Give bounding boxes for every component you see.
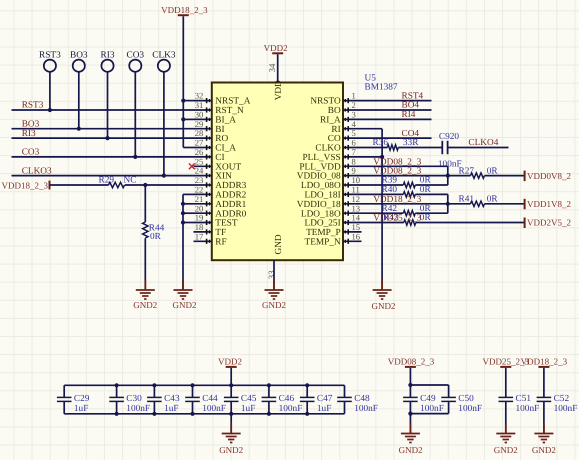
svg-text:RI4: RI4 [402, 110, 416, 120]
junction bus pin 20 [181, 211, 185, 215]
power port VDD1V8_2 [525, 199, 571, 210]
svg-text:VDD1V8_2: VDD1V8_2 [527, 199, 571, 209]
wire VDD18 port to R29 [50, 184, 109, 186]
junction C47 bottom rail [305, 412, 309, 416]
junction C30 top rail [115, 383, 119, 387]
svg-text:GND2: GND2 [532, 445, 556, 455]
wire R39 to bracket [415, 184, 448, 186]
capacitor C43 [147, 385, 180, 414]
power port VDD18_2_3 (C52) [521, 357, 568, 367]
wire right gnd vertical [381, 129, 383, 290]
svg-text:C30: C30 [126, 394, 142, 404]
svg-text:RF: RF [215, 237, 226, 247]
wire R29 to pin 23 ADDR3 [125, 184, 194, 186]
wire C52 to ground [543, 401, 545, 433]
capacitor C44 [185, 385, 226, 414]
ground GND2 (C52) [532, 423, 556, 455]
capacitor C45 [224, 385, 257, 414]
svg-text:VDD25_2_3: VDD25_2_3 [373, 214, 421, 224]
junction VDD18 node [446, 202, 450, 206]
power port VDD18_2_3 (top left) [161, 5, 208, 15]
svg-text:16: 16 [352, 231, 361, 241]
pin 9 VDDIO_08 (right) [297, 166, 362, 182]
junction C46 top rail [267, 383, 271, 387]
wire ADDR2 bus corner [183, 193, 194, 195]
svg-text:RST3: RST3 [22, 101, 44, 111]
junction C44 bottom rail [190, 412, 194, 416]
svg-text:34: 34 [267, 63, 277, 72]
svg-text:VDD08_2_3: VDD08_2_3 [373, 167, 421, 177]
pin 23 ADDR3 (left) [194, 175, 247, 191]
junction bus pin 21 [181, 202, 185, 206]
pin 6 CLKO (right) [315, 138, 361, 154]
capacitor C51 [499, 394, 540, 414]
pin 8 PLL_VDD (right) [299, 156, 361, 172]
wire LDO_18O pin13 to R42 [362, 212, 404, 214]
svg-text:GND2: GND2 [372, 301, 396, 311]
wire bottom rail to ground (bank 1) [230, 414, 232, 434]
svg-text:BM1387: BM1387 [365, 83, 398, 93]
wire net RST4 [362, 100, 432, 102]
svg-text:R29: R29 [99, 176, 115, 186]
svg-text:17: 17 [195, 231, 204, 241]
svg-text:GND: GND [274, 234, 284, 254]
resistor R43 [383, 213, 431, 225]
junction PLL_VSS [380, 155, 384, 159]
ground GND2 under R44 [133, 280, 157, 311]
wire RST3 drop [49, 72, 51, 110]
svg-text:TEMP_N: TEMP_N [305, 237, 341, 247]
junction RI3 [105, 136, 109, 140]
pin 3 RI_A (right) [320, 110, 361, 126]
svg-text:0R: 0R [150, 232, 162, 242]
wire net RI4 [362, 118, 432, 120]
pin 13 LDO_18O (right) [301, 203, 362, 219]
capacitor C47 [300, 385, 333, 414]
pin 31 RST_N (left) [194, 100, 244, 116]
junction VDD18/BI_A [181, 117, 185, 121]
junction CO3 [133, 155, 137, 159]
svg-text:GND2: GND2 [262, 300, 286, 310]
capacitor C50 [441, 385, 482, 414]
svg-text:1uF: 1uF [74, 404, 88, 414]
junction bus pin 19 [181, 220, 185, 224]
wire ADDR bus vertical to ground [182, 194, 184, 290]
wire LDO_18I pin11 to R40 [362, 193, 404, 195]
pin 1 NRSTO (right) [310, 91, 361, 107]
svg-text:VDD2V5_2: VDD2V5_2 [527, 218, 571, 228]
wire RI pin4 to gnd vertical [362, 128, 383, 130]
junction ADDR3/R44 [143, 183, 147, 187]
svg-text:GND2: GND2 [173, 300, 197, 310]
pin 4 RI (right) [331, 119, 361, 135]
svg-text:CO3: CO3 [22, 148, 40, 158]
svg-text:1uF: 1uF [317, 404, 331, 414]
junction C43 bottom rail [152, 412, 156, 416]
wire net CO3 [12, 156, 194, 158]
testpoint BO3 [70, 50, 88, 71]
svg-text:GND2: GND2 [219, 445, 243, 455]
wire bracket pins 8-10 [447, 166, 449, 185]
testpoint RI3 [101, 50, 115, 71]
svg-text:100nF: 100nF [554, 404, 578, 414]
svg-text:C920: C920 [439, 132, 459, 142]
wire R41 to VDD1V8_2 port [485, 203, 525, 205]
wire R44 to ground [144, 238, 146, 290]
wire bracket pins 11-13 [447, 194, 449, 213]
svg-text:100nF: 100nF [516, 404, 540, 414]
pin 17 RF (left) [194, 231, 227, 247]
svg-text:C47: C47 [317, 394, 333, 404]
pin 7 PLL_VSS (right) [302, 147, 361, 163]
pin 12 VDDIO_18 (right) [297, 194, 362, 210]
wire bus to pin 21 [183, 203, 194, 205]
capacitor C29 [57, 385, 90, 414]
wire net RST3 [12, 109, 194, 111]
resistor R36 [373, 138, 420, 150]
svg-text:VDD2: VDD2 [264, 43, 288, 53]
junction C47 top rail [305, 383, 309, 387]
power port VDD25_2_3 (C51) [483, 357, 530, 367]
power port VDD2 (cap bank 1) [218, 357, 242, 367]
wire PLL_VDD pin8 [362, 165, 448, 167]
wire VDD2 to pin 34 [277, 54, 279, 82]
svg-text:C29: C29 [74, 394, 90, 404]
testpoint CO3 [127, 50, 145, 71]
ground GND2 right [372, 280, 396, 312]
power port VDD2 (top) [264, 43, 288, 53]
svg-text:R41: R41 [459, 195, 475, 205]
pin 19 TEST (left) [194, 213, 238, 229]
wire net RI3 [12, 137, 194, 139]
pin 14 LDO_25I (right) [305, 213, 362, 229]
wire top rail (cap bank 1) [64, 384, 344, 386]
pin 15 TEMP_P (right) [306, 222, 361, 238]
junction BO3 [77, 127, 81, 131]
svg-text:100nF: 100nF [202, 404, 226, 414]
resistor R40 [382, 185, 432, 197]
svg-text:C43: C43 [164, 394, 180, 404]
wire pin 33 GND to ground [273, 260, 275, 290]
resistor R42 [382, 204, 432, 216]
ground GND2 under ADDR bus [173, 280, 197, 311]
svg-text:VDD18_2_3: VDD18_2_3 [2, 180, 49, 190]
pin 26 CI (left) [194, 147, 225, 163]
wire ADDR3 down to R44 [144, 185, 146, 222]
junction CLK3 [162, 174, 166, 178]
resistor R41 [459, 195, 499, 207]
svg-text:C44: C44 [202, 394, 218, 404]
wire C920 to CLKO4 [448, 147, 509, 149]
svg-text:R40: R40 [382, 185, 398, 195]
wire VDD18 to C52 [543, 368, 545, 398]
ground GND2 (C51) [494, 423, 518, 455]
junction C44 top rail [190, 383, 194, 387]
wire bus to pin 19 [183, 222, 194, 224]
wire bottom rail (cap bank 1) [64, 413, 344, 415]
pin 32 NRST_A (left) [194, 91, 251, 107]
wire CLK3 drop [163, 72, 165, 176]
wire VDD18_2_3 vertical to CI_A [182, 16, 184, 147]
svg-text:1uF: 1uF [241, 404, 255, 414]
resistor R39 [382, 176, 432, 188]
wire LDO_08O pin10 to R39 [362, 184, 404, 186]
testpoint RST3 [39, 50, 61, 71]
junction C30 bottom rail [115, 412, 119, 416]
capacitor C920 [438, 132, 462, 169]
wire R42 to bracket [415, 212, 448, 214]
ground GND2 (cap bank 1) [219, 423, 243, 455]
svg-text:VDD: VDD [274, 80, 284, 100]
pin 30 BI_A (left) [194, 110, 237, 126]
wire net CLKO3 [12, 175, 194, 177]
wire CLKO to R36 [362, 147, 388, 149]
svg-text:100nF: 100nF [126, 404, 150, 414]
svg-text:VDD18_2_3: VDD18_2_3 [373, 195, 421, 205]
junction C49 bottom rail [408, 412, 412, 416]
wire R27 to VDD0V8_2 port [485, 175, 525, 177]
svg-text:C45: C45 [241, 394, 257, 404]
capacitor C46 [262, 385, 303, 414]
junction C45 bottom rail [229, 412, 233, 416]
wire net BO3 [12, 128, 194, 130]
wire C51 to ground [505, 401, 507, 433]
svg-text:C51: C51 [516, 394, 532, 404]
junction VDD08 node [446, 174, 450, 178]
capacitor C52 [537, 394, 578, 414]
svg-text:C48: C48 [354, 394, 370, 404]
svg-text:C46: C46 [279, 394, 295, 404]
capacitor C30 [109, 385, 150, 414]
pin 16 TEMP_N (right) [305, 231, 362, 247]
junction VDD18/NRST_A [181, 99, 185, 103]
pin 25 XOUT (left) [194, 156, 242, 172]
IC U5 BM1387 body [212, 83, 343, 261]
capacitor C49 [403, 385, 444, 414]
svg-text:C49: C49 [420, 394, 436, 404]
pin 10 LDO_08O (right) [301, 175, 362, 191]
junction RST3 [48, 108, 52, 112]
resistor R29 [99, 176, 125, 188]
svg-text:VDD18_2_3: VDD18_2_3 [521, 357, 568, 367]
wire R36 to C920 [398, 147, 442, 149]
power port VDD08_2_3 (cap bank 2) [388, 357, 435, 367]
svg-text:C52: C52 [554, 394, 570, 404]
svg-text:100nF: 100nF [458, 404, 482, 414]
wire VDD08 to bank 2 top rail [409, 368, 411, 385]
wire PLL_VSS to gnd vertical [362, 156, 383, 158]
svg-text:100nF: 100nF [420, 404, 444, 414]
wire RI3 drop [107, 72, 109, 138]
wire VDDIO_08 pin9 [362, 175, 448, 177]
svg-text:CLKO3: CLKO3 [22, 166, 52, 176]
junction C45 top rail [229, 383, 233, 387]
wire VDD18 to pin 30 [183, 118, 193, 120]
svg-text:VDD18_2_3: VDD18_2_3 [161, 5, 208, 15]
pin 2 BO (right) [328, 100, 362, 116]
pin 24 XIN (left) [194, 166, 233, 182]
junction C46 bottom rail [267, 412, 271, 416]
svg-text:GND2: GND2 [494, 445, 518, 455]
power port VDD0V8_2 [525, 171, 571, 182]
ground GND2 (cap bank 2) [399, 423, 423, 455]
wire VDD18 node to R41 [448, 203, 471, 205]
pin 5 CO (right) [328, 128, 362, 144]
wire VDDIO_18 pin12 [362, 203, 448, 205]
svg-text:CLKO4: CLKO4 [468, 138, 498, 148]
no-connect X on pin 25 XOUT [189, 163, 195, 169]
wire VDD08 node to R27 [448, 175, 471, 177]
resistor R27 [459, 166, 499, 178]
svg-text:VDD08_2_3: VDD08_2_3 [388, 357, 435, 367]
svg-text:100nF: 100nF [354, 404, 378, 414]
wire VDD18 to pin 27 [183, 147, 193, 149]
svg-text:RI3: RI3 [22, 129, 36, 139]
capacitor C48 [337, 385, 378, 414]
svg-text:GND2: GND2 [399, 445, 423, 455]
svg-text:R36: R36 [373, 138, 389, 148]
wire bottom rail (cap bank 2) [410, 413, 448, 415]
svg-text:C50: C50 [458, 394, 474, 404]
pin 18 TF (left) [194, 222, 227, 238]
wire net BO4 [362, 109, 432, 111]
svg-text:100nF: 100nF [279, 404, 303, 414]
junction C49 top rail [408, 383, 412, 387]
power port VDD18_2_3 (left, at R29) [2, 180, 50, 190]
wire VDD2 to top rail [230, 368, 232, 385]
wire VDD18 to pin 32 [183, 100, 193, 102]
svg-text:R27: R27 [459, 166, 475, 176]
power port VDD2V5_2 [525, 218, 571, 229]
wire LDO_25I pin14 to R43 [362, 222, 404, 224]
pin 29 BI (left) [194, 119, 225, 135]
wire BO3 drop [78, 72, 80, 129]
pin 21 ADDR1 (left) [194, 194, 247, 210]
wire VDD25 to C51 [505, 368, 507, 398]
svg-text:1uF: 1uF [164, 404, 178, 414]
svg-text:GND2: GND2 [133, 300, 157, 310]
junction C43 top rail [152, 383, 156, 387]
testpoint CLK3 [152, 50, 176, 71]
wire R40 to bracket [415, 193, 448, 195]
wire bank 2 to ground [409, 414, 411, 434]
pin 20 ADDR0 (left) [194, 203, 247, 219]
pin 27 CI_A (left) [194, 138, 237, 154]
ground GND2 under pin 33 [262, 280, 286, 311]
pin 28 RO (left) [194, 128, 229, 144]
wire net CO4 [362, 137, 432, 139]
svg-text:VDD2: VDD2 [218, 357, 242, 367]
svg-text:VDD0V8_2: VDD0V8_2 [527, 171, 571, 181]
resistor R44 [143, 222, 165, 242]
pin 11 LDO_18I (right) [305, 185, 362, 201]
wire top rail (cap bank 2) [410, 384, 448, 386]
wire CO3 drop [134, 72, 136, 157]
wire R43 to VDD2V5_2 port [416, 222, 525, 224]
wire bus to pin 20 [183, 212, 194, 214]
pin 22 ADDR2 (left) [194, 185, 247, 201]
